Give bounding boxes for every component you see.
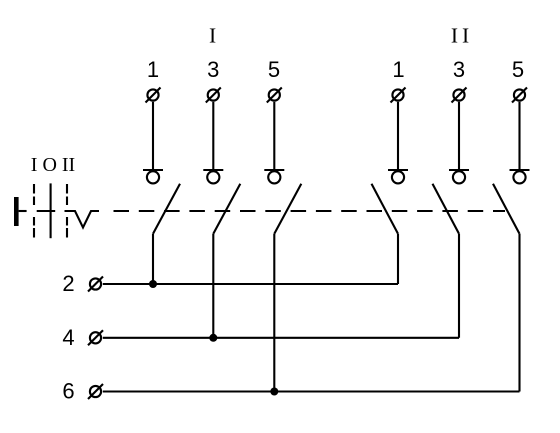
crossbar at marker O	[37, 210, 56, 212]
fixed contact pole 5	[264, 170, 284, 183]
junction pole 5 / bus 6	[270, 388, 278, 396]
svg-text:2: 2	[62, 271, 74, 296]
svg-text:5: 5	[512, 57, 524, 82]
svg-text:3: 3	[453, 57, 465, 82]
moving blade pole II-5	[493, 184, 520, 234]
terminal 3 symbol	[206, 88, 221, 103]
wire pole 5 to bus 6	[273, 234, 275, 392]
wire terminal 1 to contact	[152, 102, 154, 170]
wire pole 3 to bus 4	[212, 234, 214, 338]
moving blade pole II-1	[372, 184, 399, 234]
svg-text:I: I	[209, 23, 216, 47]
wire terminal II-1 to contact	[397, 102, 399, 170]
wire pole II-1 to bus 2	[397, 234, 399, 284]
bus wire 4	[103, 337, 459, 339]
moving blade pole 5	[274, 184, 301, 234]
svg-text:I O II: I O II	[31, 154, 75, 176]
terminal 6 symbol	[88, 384, 103, 399]
terminal II-5 symbol	[512, 88, 527, 103]
bus wire 2	[103, 283, 398, 285]
junction pole 1 / bus 2	[149, 280, 157, 288]
fixed contact pole 1	[143, 170, 163, 183]
fixed contact pole 3	[203, 170, 223, 183]
moving blade pole 3	[213, 184, 240, 234]
fixed contact pole II-3	[449, 170, 469, 183]
wire pole 1 to bus 2	[152, 234, 154, 284]
terminal 5 symbol	[267, 88, 282, 103]
mechanical linkage (dashed)	[114, 210, 506, 212]
junction pole 3 / bus 4	[209, 334, 217, 342]
svg-text:5: 5	[268, 57, 280, 82]
svg-text:1: 1	[147, 57, 159, 82]
terminal II-1 symbol	[391, 88, 406, 103]
position marker I (dashed)	[33, 184, 35, 238]
bus wire 6	[103, 390, 520, 392]
moving blade pole 1	[153, 184, 180, 234]
position marker II (dashed)	[66, 184, 68, 238]
position marker O (solid)	[50, 183, 52, 238]
fixed contact pole II-5	[510, 170, 530, 183]
wire terminal 5 to contact	[273, 102, 275, 170]
handle bar	[14, 197, 19, 226]
wire pole II-5 to bus 6	[518, 234, 520, 392]
handle stub wire	[19, 210, 27, 212]
svg-text:II: II	[451, 23, 473, 47]
svg-text:3: 3	[207, 57, 219, 82]
wire terminal 3 to contact	[212, 102, 214, 170]
detent V notch	[65, 211, 100, 228]
wire terminal II-5 to contact	[518, 102, 520, 170]
wire pole II-3 to bus 4	[458, 234, 460, 338]
svg-text:1: 1	[392, 57, 404, 82]
moving blade pole II-3	[433, 184, 460, 234]
terminal 1 symbol	[146, 88, 161, 103]
terminal 2 symbol	[88, 277, 103, 292]
fixed contact pole II-1	[388, 170, 408, 183]
svg-text:6: 6	[62, 379, 74, 404]
terminal 4 symbol	[88, 330, 103, 345]
terminal II-3 symbol	[452, 88, 467, 103]
svg-text:4: 4	[62, 325, 74, 350]
wire terminal II-3 to contact	[458, 102, 460, 170]
